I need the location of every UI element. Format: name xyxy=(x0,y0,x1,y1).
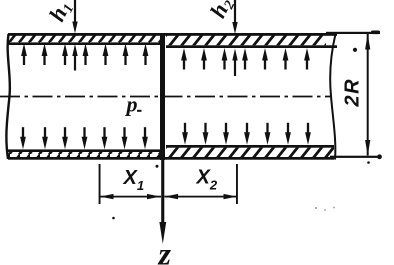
centerline (dash-dot axis) xyxy=(0,96,331,98)
2R dimension line xyxy=(367,34,369,156)
stray dot below left wall at junction xyxy=(156,165,159,168)
label 2R xyxy=(342,78,364,108)
dot at end of bottom extension line xyxy=(377,154,382,159)
bottom-left wall hatch xyxy=(8,152,160,157)
bottom 2R extension line xyxy=(330,156,379,158)
bottom-right wall inner line xyxy=(166,145,334,148)
top-left wall hatch (thickness h1) xyxy=(8,35,160,43)
z axis line xyxy=(161,160,164,228)
x2 dimension line xyxy=(165,196,237,198)
pressure arrows up, right section xyxy=(181,48,187,70)
top-right wall outer line xyxy=(165,33,337,36)
bottom-right wall hatch xyxy=(166,148,334,158)
stray dot below x1 label xyxy=(112,217,115,220)
svg-text:2R: 2R xyxy=(342,78,364,108)
z axis arrowhead xyxy=(159,222,166,244)
label h1 xyxy=(44,0,77,26)
h2 long pressure arrow below wall xyxy=(232,49,237,61)
label h2 xyxy=(205,0,238,23)
svg-text:p: p xyxy=(125,92,138,117)
bottom-left wall inner line xyxy=(8,149,160,152)
x1 left extension line xyxy=(99,164,101,204)
bottom-right wall outer line xyxy=(165,157,334,160)
pressure arrows down, left section xyxy=(20,127,26,149)
left break (wavy) border of pipe xyxy=(6,34,10,159)
top-left wall outer line xyxy=(8,33,160,36)
pressure arrows up, left section xyxy=(21,44,27,66)
x2 right extension line xyxy=(236,164,238,204)
top 2R extension line xyxy=(326,32,380,34)
right break (wavy) line of pipe xyxy=(330,34,335,160)
h1 thickness arrow (from above) xyxy=(74,0,76,23)
h1 long pressure arrow below wall xyxy=(72,44,77,56)
faint scan specks bottom right xyxy=(315,207,335,211)
pressure arrows down, right section xyxy=(182,123,188,145)
stray dot below bottom extension xyxy=(367,161,370,164)
x1 dimension line xyxy=(100,196,161,198)
blob at end of top extension line xyxy=(371,31,380,35)
stray dot near 2R top xyxy=(353,48,357,52)
bottom-left wall outer line xyxy=(8,157,160,160)
top-left wall inner line xyxy=(8,42,160,45)
top-right wall hatch (thickness h2) xyxy=(166,35,326,45)
svg-text:z: z xyxy=(158,236,172,265)
junction step vertical line xyxy=(160,33,165,160)
h2 thickness arrow (from above) xyxy=(234,0,236,24)
top-right wall inner line xyxy=(166,45,337,48)
